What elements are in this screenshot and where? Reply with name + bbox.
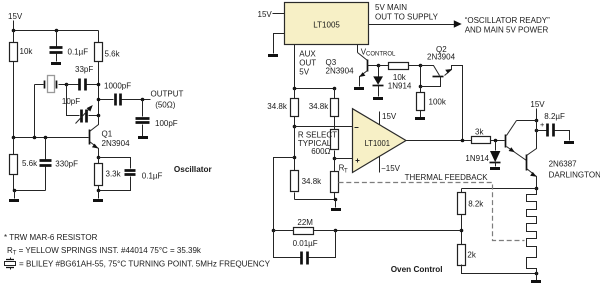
svg-text:LT1005: LT1005 [313,21,340,30]
capacitor C1 0.1uF bypass [50,31,89,62]
svg-text:Oscillator: Oscillator [174,165,213,174]
crystal symbol (note key) [5,258,16,270]
text OUTPUT 50 ohm [151,90,184,110]
transistor Q5 2N6387 darlington output [527,121,600,189]
svg-text:0.1µF: 0.1µF [68,48,89,57]
resistor R12 8.2k feedback [458,189,485,245]
svg-text:8.2k: 8.2k [468,200,484,209]
wire bias ground rail [13,189,46,199]
svg-text:0.1µF: 0.1µF [142,172,163,181]
ground (bridge) [331,208,341,211]
wire 15V to regulator input [273,13,285,15]
text VCONTROL [361,48,396,58]
capacitor C2 33pF [67,65,99,91]
svg-text:15V: 15V [382,112,397,121]
svg-text:3.3k: 3.3k [106,169,122,178]
ground (Q3 emitter) [354,87,364,90]
svg-text:2N3904: 2N3904 [102,139,131,148]
ground (R6) [415,117,425,120]
svg-text:5.6k: 5.6k [22,159,38,168]
diode D2 1N914 [465,141,500,167]
text Oscillator [174,165,213,174]
svg-text:Q1: Q1 [102,130,113,139]
svg-text:34.8k: 34.8k [267,102,288,111]
diode D1 1N914 [373,66,412,97]
wire top rail [12,29,99,33]
svg-text:RT = YELLOW SPRINGS INST. #440: RT = YELLOW SPRINGS INST. #44014 75°C = … [7,246,202,257]
svg-text:2N6387: 2N6387 [549,160,578,169]
resistor R4 3.3k emitter [95,158,122,191]
svg-text:600Ω: 600Ω [311,147,330,156]
svg-text:2k: 2k [467,251,476,260]
svg-text:Oven Control: Oven Control [391,265,443,274]
transistor Q4 2N6387 darlington input [506,121,537,161]
resistor R6 100k [417,87,447,118]
heater element meander [527,189,537,274]
ground (heater) [531,280,541,283]
node darlington base junction [494,139,498,143]
svg-text:1000pF: 1000pF [104,81,131,90]
node non-inverting-input tap [333,157,337,161]
node heater bottom junction [535,272,539,281]
wire Q2 collector-base tie [420,66,422,87]
wire AUX OUT pin to bridge rail [294,45,296,89]
resistor R2 5.6k collector [95,31,121,85]
ground (D1) [373,97,383,100]
svg-text:OUT: OUT [299,58,316,67]
capacitor C6 330pF [40,138,79,191]
text AUX OUT 5V [299,49,316,76]
node Q2 base junction [419,85,423,89]
svg-text:8.2µF: 8.2µF [544,112,565,121]
transistor Q2 2N3904 [421,45,463,140]
ground (C8) [564,141,574,144]
transistor Q1 2N3904 [90,116,131,158]
node feedback divider junction [460,229,464,233]
svg-text:* TRW MAR-6 RESISTOR: * TRW MAR-6 RESISTOR [4,233,98,242]
svg-text:DARLINGTON: DARLINGTON [549,171,600,180]
ground (bias network) [9,199,19,202]
svg-text:330pF: 330pF [55,159,78,168]
ground (regulator) [268,54,278,57]
svg-text:T: T [344,168,348,174]
resistor R3 5.6k bias [10,138,39,191]
wire thermal feedback dashed path [339,183,525,241]
svg-text:AUX: AUX [299,49,316,58]
node emitter junction [97,156,101,160]
ground (C1) [51,62,61,65]
ground (C5) [138,136,148,139]
svg-text:0.01µF: 0.01µF [293,239,318,248]
svg-text:3k: 3k [475,128,484,137]
resistor R5 10k [379,63,421,70]
node collector-33pF junction [97,83,101,87]
wire 5V main output with arrow [369,20,462,27]
resistor R7 34.8k upper-left [267,89,298,127]
resistor R8 34.8k upper-right [309,89,339,130]
ground (D2) [490,167,500,170]
svg-text:−15V: −15V [381,164,401,173]
wire crystal left leg to base rail [34,85,36,138]
svg-text:34.8k: 34.8k [302,177,323,186]
text 15V darlington supply [530,100,545,121]
crystal Y1 5MHz [35,76,67,93]
node crystal-output junction [65,83,69,87]
text Oven Control [391,265,443,274]
node collector-10pF junction [97,114,101,118]
wire regulator ground pin [274,34,285,54]
wire to inverting input [295,126,353,128]
text note RT Yellow Springs [7,246,202,257]
ground (emitter network) [93,199,103,202]
svg-text:THERMAL FEEDBACK: THERMAL FEEDBACK [405,173,489,182]
wire op-amp +15V pin [380,112,397,125]
capacitor C3 10pF variable [62,85,99,124]
resistor R1 10k [10,31,34,138]
capacitor C4 1000pF coupling [99,81,151,105]
transistor Q3 2N3904 [326,53,379,87]
text THERMAL FEEDBACK [405,173,489,182]
node collector-1000pF junction [97,98,101,102]
node output junction [141,98,145,102]
svg-text:33pF: 33pF [75,65,93,74]
wire tap to 22M column [274,158,295,232]
wire bridge top rail [293,87,337,91]
wire to non-inverting input [335,158,353,160]
svg-text:2N3904: 2N3904 [326,66,355,75]
wire op-amp output [407,139,472,143]
capacitor C8 8.2uF [537,112,570,141]
svg-text:1N914: 1N914 [465,154,489,163]
svg-text:2N3904: 2N3904 [427,52,456,61]
svg-text:CONTROL: CONTROL [366,51,396,57]
svg-text:AND MAIN 5V POWER: AND MAIN 5V POWER [465,26,549,35]
wire heater top to feedback divider [462,188,537,190]
resistor RT thermistor [331,159,349,200]
resistor R10 34.8k lower-left [291,171,323,200]
wire bridge bottom rail [295,198,338,208]
resistor R9 R-SELECT 600 ohm [298,130,339,159]
wire collector column [98,85,100,116]
svg-text:“OSCILLATOR READY”: “OSCILLATOR READY” [465,16,550,25]
wire base rail [12,136,89,140]
svg-text:100k: 100k [429,97,447,106]
node Q3 base junction [377,64,381,68]
node inverting-input tap [293,125,297,129]
op-amp U2 LT1001 [353,109,407,173]
svg-text:5V MAIN: 5V MAIN [375,3,407,12]
svg-text:5V: 5V [299,67,309,76]
node emitter ground junction [97,189,101,199]
regulator U1 LT1005 [285,3,369,45]
node darlington collector junction [535,119,539,123]
svg-text:LT1001: LT1001 [365,139,391,148]
svg-text:= BLILEY #BG61AH-55, 75°C TURN: = BLILEY #BG61AH-55, 75°C TURNING POINT.… [19,260,271,269]
capacitor C5 100pF output [136,100,178,137]
text note TRW MAR-6 resistor [4,233,98,242]
svg-text:OUT TO SUPPLY: OUT TO SUPPLY [375,12,439,21]
node 15V supply label (oscillator) [8,12,23,21]
wire left branch down [294,127,296,171]
capacitor C7 0.1uF emitter bypass [99,158,163,191]
svg-text:10k: 10k [20,47,34,56]
wire feedback to 22M rail [272,229,462,233]
svg-text:1N914: 1N914 [388,81,412,90]
wire 15V drop to top rail [13,21,15,31]
text note Bliley crystal [19,260,271,269]
wire VCONTROL pin [357,45,359,53]
node Q2 collector junction [419,64,423,68]
svg-text:15V: 15V [258,10,273,19]
node heater top junction [535,187,539,191]
resistor R13 22M [274,218,336,235]
text OSCILLATOR READY AND MAIN 5V POWER [465,16,550,35]
svg-text:100pF: 100pF [155,119,178,128]
capacitor C9 0.01uF integrator [274,231,336,265]
node 15V supply label (regulator) [258,10,273,19]
svg-text:OUTPUT: OUTPUT [151,90,184,99]
svg-text:15V: 15V [530,100,545,109]
node integrator tap [293,156,297,160]
svg-text:10pF: 10pF [62,97,80,106]
wire op-amp -15V pin [380,157,401,173]
resistor R11 3k [472,128,505,144]
text 5V MAIN OUT TO SUPPLY [375,3,439,21]
svg-text:15V: 15V [8,12,23,21]
resistor R14 2k feedback [458,245,537,274]
svg-text:22M: 22M [297,218,313,227]
svg-text:+: + [540,120,544,129]
node 8.2uF tap [535,129,539,133]
svg-text:34.8k: 34.8k [309,102,330,111]
svg-text:5.6k: 5.6k [105,50,121,59]
svg-text:(50Ω): (50Ω) [155,100,176,109]
